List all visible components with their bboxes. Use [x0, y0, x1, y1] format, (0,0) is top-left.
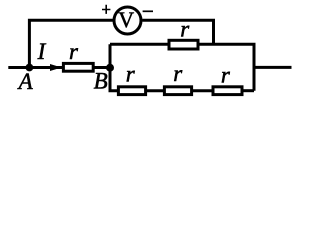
- voltmeter V circle: [114, 7, 141, 34]
- svg-text:A: A: [17, 69, 34, 94]
- svg-text:B: B: [94, 68, 108, 93]
- current arrow head on main wire: [50, 64, 62, 71]
- voltmeter plus terminal: [102, 5, 110, 14]
- wire: resistor R1 to node B: [94, 66, 110, 69]
- svg-text:V: V: [118, 7, 134, 32]
- wire: left vertical from node A up, and top rail to voltmeter: [29, 20, 113, 67]
- junction dot node A: [26, 64, 34, 72]
- wire: between resistor R3 and R4: [147, 89, 164, 92]
- svg-text:r: r: [180, 17, 190, 42]
- voltmeter minus terminal: [143, 10, 153, 12]
- svg-text:r: r: [69, 39, 79, 64]
- wire: top branch right segment from R2 to right node, down to bottom branch: [199, 44, 254, 90]
- resistor R5 (r) bottom branch third: [213, 87, 242, 95]
- resistor R3 (r) bottom branch first: [118, 87, 145, 95]
- wire: resistor R5 to right node vertical: [243, 89, 254, 92]
- resistor R2 (r) top parallel branch: [169, 40, 198, 49]
- svg-text:r: r: [126, 61, 136, 86]
- wire: output stub to the right edge: [254, 66, 292, 69]
- svg-text:r: r: [173, 61, 183, 86]
- svg-text:I: I: [37, 39, 47, 64]
- wire: between resistor R4 and R5: [193, 89, 213, 92]
- wire: top rail from voltmeter right, down into top branch: [142, 20, 213, 44]
- resistor R4 (r) bottom branch second: [164, 87, 191, 95]
- wire: node B vertical from top branch to bottom branch corner: [110, 44, 118, 90]
- svg-text:r: r: [221, 62, 231, 87]
- junction dot node B: [106, 64, 114, 72]
- resistor R1 (r) between A and B: [63, 63, 93, 71]
- wire: top branch left segment from B vertical to resistor R2: [110, 43, 168, 46]
- wire: main horizontal from left edge through node A to resistor R1: [8, 66, 62, 69]
